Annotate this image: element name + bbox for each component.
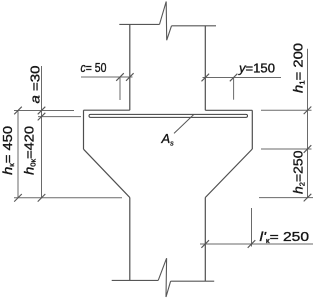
svg-text:h1= 200: h1= 200	[291, 43, 307, 93]
corbel right chamfer	[205, 149, 252, 198]
right extension line at corbel bottom level	[259, 197, 313, 199]
svg-text:a =30: a =30	[28, 66, 43, 104]
dimension line a=30 / h0k=420 (left inner)	[41, 66, 43, 198]
tick h450 bottom	[14, 194, 22, 202]
tick h0k bottom	[38, 194, 46, 202]
svg-text:l'к= 250: l'к= 250	[260, 229, 310, 245]
dimension l'k=250: line	[200, 243, 313, 245]
corbel right edge	[251, 110, 253, 149]
dimension y=150: tick left	[202, 74, 210, 82]
top break line left segment	[119, 23, 159, 25]
left extension line at corbel bottom level	[14, 197, 122, 199]
dimension c=50: tick left	[116, 73, 124, 81]
tick h450 top	[14, 107, 22, 115]
dimension c=50: extension line	[119, 77, 121, 100]
corbel left edge	[83, 110, 85, 149]
svg-text:As: As	[161, 131, 175, 148]
tick h2 bottom	[304, 194, 312, 202]
dimension c=50: line	[81, 76, 133, 78]
column lower left face	[129, 198, 131, 281]
column lower right face	[204, 198, 206, 282]
corbel left chamfer	[84, 149, 130, 197]
left extension line at corbel top level	[14, 110, 74, 112]
bottom break line left segment	[112, 279, 159, 281]
bottom break line right segment	[171, 280, 215, 282]
dimension line h1/h2 (right)	[307, 49, 309, 198]
tick h2 top	[304, 145, 312, 153]
tick l'k right	[248, 240, 256, 248]
corbel top edge left	[84, 109, 130, 111]
left extension line at As level	[38, 116, 81, 118]
tick h1 bottom	[304, 107, 312, 115]
tick a30 bottom / h0k top	[38, 113, 46, 121]
right extension line at corbel top level	[261, 109, 312, 111]
dimension y=150: tick right	[230, 74, 238, 82]
svg-text:hк= 450: hк= 450	[0, 126, 16, 175]
top break zigzag	[160, 2, 172, 41]
svg-text:c= 50: c= 50	[81, 60, 107, 75]
column upper left face	[129, 24, 131, 110]
dimension l'k=250: extension line	[251, 208, 253, 247]
corbel top edge right	[205, 109, 252, 111]
tick l'k left	[201, 240, 209, 248]
leader line to As	[174, 114, 194, 133]
dimension c=50: tick right	[126, 73, 134, 81]
svg-text:y=150: y=150	[238, 61, 275, 76]
tick a30 top	[38, 107, 46, 115]
svg-text:h0к=420: h0к=420	[22, 126, 38, 175]
reinforcement bar As (outline)	[89, 114, 248, 117]
dimension line h=450 (left outer)	[17, 111, 19, 198]
column upper right face	[204, 26, 206, 111]
top break line right segment	[172, 25, 217, 27]
dimension y=150: line	[203, 77, 282, 79]
svg-text:h2=250: h2=250	[291, 151, 307, 195]
right extension line at chamfer start level	[261, 148, 312, 150]
bottom break zigzag	[158, 258, 170, 297]
dimension y=150: extension line	[233, 78, 235, 100]
